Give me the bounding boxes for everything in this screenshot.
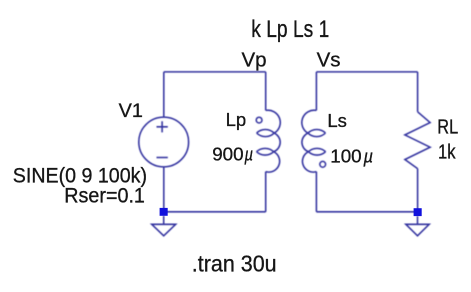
svg-text:V1: V1 [119,101,143,122]
svg-text:900: 900 [212,144,243,165]
svg-text:100: 100 [330,146,361,167]
svg-text:µ: µ [244,144,254,165]
svg-text:1k: 1k [438,140,456,163]
svg-text:Lp: Lp [226,109,247,130]
svg-text:k Lp Ls 1: k Lp Ls 1 [251,16,329,43]
svg-text:Ls: Ls [327,110,347,131]
svg-text:Rser=0.1: Rser=0.1 [64,183,145,207]
svg-text:RL: RL [437,117,458,139]
svg-text:.tran 30u: .tran 30u [192,250,277,276]
svg-text:µ: µ [363,146,374,167]
svg-text:Vp: Vp [242,49,267,72]
svg-text:Vs: Vs [317,49,341,72]
